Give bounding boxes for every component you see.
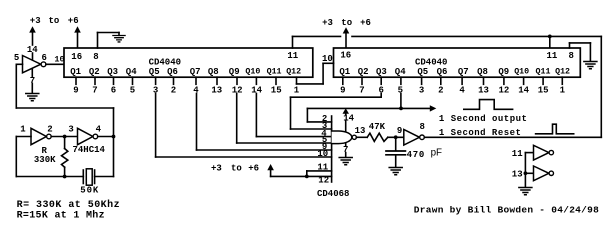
1 Second output label bbox=[439, 114, 527, 124]
svg-text:5: 5 bbox=[14, 53, 19, 63]
wire chip1 Q10 pin14 to 4068 pin4 bbox=[256, 94, 331, 137]
pin 13 label bbox=[355, 126, 366, 136]
4068 pin 7 ground lead bbox=[345, 144, 347, 157]
svg-text:CD4068: CD4068 bbox=[317, 189, 349, 199]
pin 8 label bbox=[420, 122, 425, 132]
svg-text:1: 1 bbox=[294, 85, 300, 95]
inverter U1D 74HC14 reset buffer pins 9,8 bbox=[404, 130, 425, 146]
node: chip2 pin 11 junction bbox=[548, 35, 552, 48]
47K label bbox=[369, 122, 386, 132]
svg-text:5: 5 bbox=[130, 85, 135, 95]
svg-text:Q5: Q5 bbox=[417, 67, 428, 77]
ground (chip1 pin 8) bbox=[113, 36, 125, 42]
svg-text:10: 10 bbox=[54, 54, 64, 64]
chip1 Q labels bbox=[70, 67, 301, 77]
oscillator bottom rail bbox=[16, 176, 113, 178]
svg-text:Q10: Q10 bbox=[514, 68, 529, 77]
node 4068 pin11/12 tie bbox=[305, 171, 332, 178]
svg-text:6: 6 bbox=[42, 53, 47, 63]
wire inverter B output bbox=[98, 136, 114, 138]
wire chip2 Q3 pin6 to 4068 pin3 bbox=[291, 94, 382, 130]
svg-text:to: to bbox=[49, 16, 60, 26]
svg-text:Q3: Q3 bbox=[107, 67, 118, 77]
svg-text:+3: +3 bbox=[322, 18, 333, 28]
svg-text:2: 2 bbox=[438, 85, 443, 95]
svg-text:13: 13 bbox=[211, 85, 222, 95]
chip1 pin numbers bbox=[73, 85, 299, 95]
inverter U1B 74HC14 oscillator pins 1,2 bbox=[31, 128, 51, 144]
svg-text:Q6: Q6 bbox=[167, 67, 178, 77]
svg-text:Q1: Q1 bbox=[339, 67, 350, 77]
chip1 pin 8 wire to ground bbox=[98, 33, 120, 49]
4068 pin 14 power arrow bbox=[343, 108, 350, 131]
pin 5 label bbox=[14, 53, 19, 63]
svg-text:+6: +6 bbox=[68, 16, 79, 26]
pin 4 label bbox=[96, 124, 102, 134]
R label bbox=[42, 146, 48, 156]
pin 2 label bbox=[47, 124, 52, 134]
output pulse waveform bbox=[464, 100, 513, 110]
svg-text:16: 16 bbox=[340, 51, 351, 61]
wire inverter input from feedback bbox=[16, 64, 22, 108]
svg-text:Q9: Q9 bbox=[498, 67, 509, 77]
note R values line 1 bbox=[17, 199, 120, 211]
svg-text:Q7: Q7 bbox=[458, 67, 469, 77]
svg-text:Q4: Q4 bbox=[126, 67, 137, 77]
pin 7 label 4068 bbox=[343, 145, 348, 155]
CD4068 label bbox=[317, 189, 349, 199]
4068 input pin labels bbox=[317, 114, 329, 185]
chip2 pin stubs bbox=[343, 77, 563, 84]
wire chip1 Q12 pin1 to chip2 clock pin10 bbox=[297, 63, 334, 84]
svg-text:3: 3 bbox=[68, 124, 73, 134]
chip2 pin 10 label bbox=[322, 54, 333, 64]
pin 9 label bbox=[397, 126, 402, 136]
svg-text:Q8: Q8 bbox=[208, 67, 219, 77]
svg-text:+3: +3 bbox=[211, 163, 222, 173]
svg-text:Q3: Q3 bbox=[376, 67, 387, 77]
svg-text:4: 4 bbox=[96, 124, 102, 134]
ground (cap) bbox=[389, 168, 402, 175]
reset wire (top rail) bbox=[293, 35, 602, 37]
svg-text:Q7: Q7 bbox=[190, 67, 201, 77]
wire chip1 Q9 pin12 to 4068 pin5 bbox=[237, 94, 332, 144]
wire right rail down to reset line bbox=[600, 36, 602, 137]
wire pin 7 to ground bbox=[31, 69, 33, 93]
svg-text:to: to bbox=[231, 163, 242, 173]
IC U2 CD4040 (left counter) bbox=[64, 48, 313, 77]
oscillator feedback wire (pin4 to pin5) bbox=[16, 108, 113, 177]
power arrow to chip1 pin 16 bbox=[74, 26, 81, 47]
svg-text:470: 470 bbox=[407, 150, 425, 160]
chip2 pin 16 label bbox=[340, 51, 351, 61]
ground (spare inverters) bbox=[519, 188, 532, 195]
power label +3 to +6 (lower) bbox=[211, 163, 259, 173]
wire chip1 Q5 pin3 to 4068 pin10 bbox=[156, 94, 332, 158]
gate U4 CD4068 NAND bbox=[332, 116, 357, 182]
svg-text:10: 10 bbox=[317, 149, 328, 159]
resistor 47K bbox=[367, 133, 388, 141]
svg-text:14: 14 bbox=[518, 85, 529, 95]
svg-text:15: 15 bbox=[271, 85, 282, 95]
chip2 pin numbers bbox=[340, 85, 565, 95]
svg-text:16: 16 bbox=[71, 52, 82, 62]
node R top junction bbox=[63, 135, 67, 139]
crystal 50K bbox=[83, 169, 94, 185]
svg-text:R=15K at 1 Mhz: R=15K at 1 Mhz bbox=[17, 209, 105, 221]
IC U3 CD4040 (right counter) bbox=[334, 48, 581, 77]
pF label bbox=[431, 147, 442, 158]
chip2 pin 8 label bbox=[569, 51, 574, 61]
chip1 pin 16 label bbox=[71, 52, 82, 62]
svg-text:Q8: Q8 bbox=[477, 67, 488, 77]
svg-text:9: 9 bbox=[73, 85, 78, 95]
chip1 pin 11 label bbox=[287, 51, 298, 61]
chip1 pin stubs bbox=[76, 77, 297, 84]
note R values line 2 bbox=[17, 209, 105, 221]
svg-text:Q11: Q11 bbox=[536, 68, 551, 77]
svg-text:pF: pF bbox=[431, 147, 442, 158]
inverter U1F 74HC14 spare pin 13 bbox=[525, 166, 553, 181]
reset pulse waveform bbox=[536, 124, 574, 134]
wire 47K to inverter input bbox=[388, 136, 404, 138]
svg-text:8: 8 bbox=[420, 122, 425, 132]
svg-text:Q1: Q1 bbox=[70, 67, 81, 77]
svg-text:Q2: Q2 bbox=[358, 67, 369, 77]
svg-text:14: 14 bbox=[343, 114, 354, 124]
svg-text:1 Second output: 1 Second output bbox=[439, 114, 527, 124]
svg-text:Q9: Q9 bbox=[229, 67, 240, 77]
470 label bbox=[407, 150, 425, 160]
inverter U1E 74HC14 spare pin 11 bbox=[525, 145, 553, 160]
svg-text:11: 11 bbox=[547, 51, 558, 61]
wire 4068 output to 47K bbox=[356, 136, 367, 138]
svg-text:Q11: Q11 bbox=[267, 68, 282, 77]
svg-text:7: 7 bbox=[343, 145, 348, 155]
resistor R 330K bbox=[62, 137, 68, 179]
svg-text:Q12: Q12 bbox=[555, 68, 570, 77]
svg-text:Q12: Q12 bbox=[286, 68, 301, 77]
pin 13 label spare bbox=[512, 170, 523, 180]
ground (4068 pin 7) bbox=[339, 158, 352, 165]
chip1 label CD4040 bbox=[149, 57, 181, 67]
svg-text:+3: +3 bbox=[30, 16, 41, 26]
svg-text:1 Second Reset: 1 Second Reset bbox=[439, 128, 521, 138]
power arrow to 4068 pins 11,12 bbox=[267, 164, 331, 176]
chip2 pin 11 label bbox=[547, 51, 558, 61]
svg-text:11: 11 bbox=[287, 51, 298, 61]
svg-text:1: 1 bbox=[560, 85, 566, 95]
svg-text:9: 9 bbox=[397, 126, 402, 136]
svg-text:7: 7 bbox=[359, 85, 364, 95]
50K label bbox=[80, 185, 99, 195]
chip2 label CD4040 bbox=[415, 57, 447, 67]
svg-text:Q6: Q6 bbox=[437, 67, 448, 77]
node pin4 junction bbox=[112, 135, 116, 139]
svg-text:11: 11 bbox=[512, 149, 523, 159]
chip1 pin 8 label bbox=[93, 52, 98, 62]
wire spare inputs to ground bbox=[524, 153, 528, 187]
node cap junction bbox=[394, 135, 398, 139]
330K label bbox=[34, 155, 56, 165]
svg-text:2: 2 bbox=[171, 85, 176, 95]
inverter U1A 74HC14 clock driver pins 5,6 bbox=[23, 56, 46, 73]
svg-text:Q2: Q2 bbox=[89, 67, 100, 77]
svg-text:9: 9 bbox=[340, 85, 345, 95]
credit text bbox=[414, 205, 599, 216]
svg-text:330K: 330K bbox=[34, 155, 56, 165]
svg-text:50K: 50K bbox=[80, 185, 99, 195]
svg-text:15: 15 bbox=[538, 85, 549, 95]
chip1 pin 11 reset stub bbox=[292, 36, 294, 48]
reset output wire bbox=[424, 136, 601, 138]
power arrow to pin 14 of 74HC14 bbox=[29, 26, 36, 45]
pin 6 label bbox=[42, 53, 47, 63]
svg-text:47K: 47K bbox=[369, 122, 386, 132]
svg-text:Q10: Q10 bbox=[245, 68, 260, 77]
svg-text:3: 3 bbox=[419, 85, 424, 95]
pin 7 label bbox=[30, 76, 35, 86]
svg-text:R= 330K at 50Khz: R= 330K at 50Khz bbox=[17, 199, 120, 211]
pin 3 label bbox=[68, 124, 73, 134]
svg-text:Drawn by Bill Bowden - 04/24/9: Drawn by Bill Bowden - 04/24/98 bbox=[414, 205, 599, 216]
ground (chip2 pin 8) bbox=[584, 62, 597, 69]
svg-text:+6: +6 bbox=[248, 163, 259, 173]
svg-text:Q5: Q5 bbox=[149, 67, 160, 77]
ground (clock inverter pin 7) bbox=[26, 94, 39, 101]
pin 1 label bbox=[20, 124, 26, 134]
svg-text:4: 4 bbox=[459, 85, 465, 95]
svg-text:Q4: Q4 bbox=[395, 67, 406, 77]
svg-text:7: 7 bbox=[92, 85, 97, 95]
inverter U1C 74HC14 oscillator pins 3,4 bbox=[78, 128, 98, 144]
svg-text:1: 1 bbox=[20, 124, 26, 134]
svg-text:13: 13 bbox=[512, 170, 523, 180]
wire pin14 to inverter top bbox=[32, 53, 34, 60]
pin 14 label 4068 bbox=[343, 114, 354, 124]
power arrow to chip2 pin 16 bbox=[343, 27, 350, 47]
wire chip2 Q4 pin5 to 4068 pin2 and output arrow bbox=[307, 94, 436, 122]
1 Second Reset label bbox=[439, 128, 521, 138]
wire inverter output to chip1 pin 10 bbox=[46, 63, 64, 65]
svg-text:11: 11 bbox=[317, 162, 328, 172]
capacitor 470 pF bbox=[386, 139, 405, 167]
wire inverter A input bbox=[16, 137, 31, 177]
pin 10 label chip1 bbox=[54, 54, 64, 64]
chip2 pin 8 wire to ground bbox=[570, 43, 591, 61]
pin 14 label (clock inverter) bbox=[27, 45, 38, 55]
svg-text:12: 12 bbox=[499, 85, 510, 95]
svg-text:to: to bbox=[341, 18, 352, 28]
svg-text:12: 12 bbox=[318, 175, 329, 185]
pin 11 label spare bbox=[512, 149, 523, 159]
wire node 2 to node 3 bbox=[51, 136, 77, 138]
power label +3 to +6 (top left) bbox=[30, 16, 79, 26]
svg-text:8: 8 bbox=[93, 52, 98, 62]
node Q4 output junction bbox=[399, 107, 403, 111]
chip2 Q labels bbox=[339, 67, 570, 77]
svg-text:13: 13 bbox=[478, 85, 489, 95]
power label +3 to +6 (top middle) bbox=[322, 18, 371, 28]
svg-text:2: 2 bbox=[47, 124, 52, 134]
svg-text:74HC14: 74HC14 bbox=[73, 145, 106, 155]
svg-text:8: 8 bbox=[569, 51, 574, 61]
svg-text:+6: +6 bbox=[360, 18, 371, 28]
svg-text:13: 13 bbox=[355, 126, 366, 136]
wire chip1 Q7 pin4 to 4068 pin9 bbox=[197, 94, 332, 151]
svg-text:6: 6 bbox=[111, 85, 116, 95]
svg-text:10: 10 bbox=[322, 54, 333, 64]
74HC14 label bbox=[73, 145, 106, 155]
